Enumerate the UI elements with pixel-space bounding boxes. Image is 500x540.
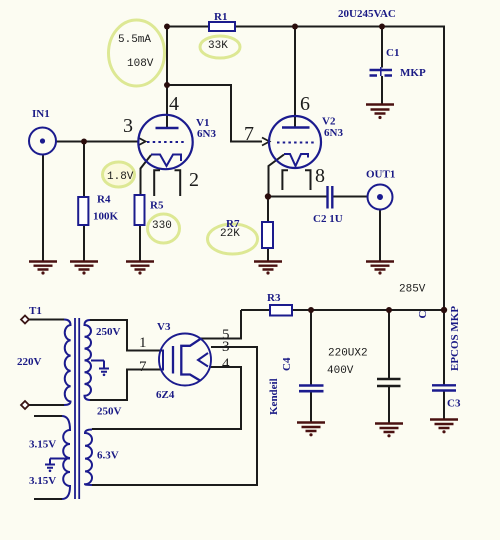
wire IN1 to V1 grid	[57, 141, 139, 143]
V1 plate	[156, 127, 179, 130]
svg-text:20U245VAC: 20U245VAC	[338, 8, 396, 20]
wire node to C2	[268, 196, 327, 198]
wire C2 to OUT1	[334, 196, 368, 198]
grid arrow V1	[138, 138, 270, 146]
wire V3 pin4 to 6.3V top	[92, 367, 241, 429]
ground R7	[254, 262, 282, 275]
svg-text:6Z4: 6Z4	[156, 389, 175, 401]
wire B+ rail top right	[235, 26, 444, 28]
annotation ellipse 330	[148, 214, 180, 243]
terminal T1 top	[21, 316, 29, 410]
svg-text:400V: 400V	[327, 365, 354, 377]
wire C1 bottom lead	[381, 76, 383, 104]
svg-text:4: 4	[169, 93, 179, 115]
wire HV bottom to V3 pin7	[90, 370, 164, 401]
HV center tap wire	[91, 360, 104, 362]
svg-text:33K: 33K	[208, 40, 228, 52]
wire B+ filtered rail	[292, 309, 444, 311]
ground C1	[366, 105, 394, 120]
svg-text:7: 7	[244, 123, 254, 145]
resistor R1	[209, 22, 235, 31]
svg-text:4: 4	[222, 356, 230, 372]
wire R5 to ground	[139, 225, 141, 261]
svg-text:C2 1U: C2 1U	[313, 213, 343, 225]
wire 220V top lead	[29, 319, 64, 321]
svg-text:220UX2: 220UX2	[328, 348, 368, 360]
wire R4 to ground	[83, 225, 85, 261]
V3 cathode C shape	[181, 339, 201, 381]
svg-text:V3: V3	[157, 321, 171, 333]
ground C3	[430, 420, 458, 434]
wire IN1 to ground	[42, 155, 44, 262]
tube V1 envelope	[138, 115, 192, 169]
capacitor C3	[432, 385, 456, 390]
svg-text:3.15V: 3.15V	[29, 439, 56, 451]
V3 plate tie bar	[162, 350, 164, 371]
capacitor C1	[370, 67, 393, 76]
wire 3.15V top stub	[34, 415, 62, 417]
svg-text:6N3: 6N3	[324, 127, 343, 139]
svg-text:OUT1: OUT1	[366, 169, 395, 181]
transformer core	[75, 318, 79, 499]
wire R7 to ground	[267, 248, 269, 261]
V3 cathode wedge	[198, 353, 208, 367]
wire C3 to ground	[443, 391, 445, 420]
svg-text:3: 3	[123, 115, 133, 137]
wire mid cap riser	[388, 310, 390, 379]
svg-text:22K: 22K	[220, 228, 240, 240]
HV center tap ground	[99, 361, 109, 372]
svg-text:T1: T1	[29, 305, 42, 317]
svg-text:5.5mA: 5.5mA	[118, 34, 151, 46]
svg-text:R4: R4	[97, 194, 111, 206]
wire V3 pin3 to 6.3V bottom	[92, 347, 257, 485]
capacitor 220UX2 middle	[377, 379, 401, 386]
resistor R5	[135, 195, 145, 225]
V1 grid (dashed)	[147, 141, 186, 143]
svg-text:R5: R5	[150, 200, 164, 212]
svg-text:100K: 100K	[93, 211, 119, 223]
annotation ellipse 5.5mA/108V	[109, 20, 165, 86]
wire C1 top lead	[381, 27, 383, 68]
V2 cathode	[284, 154, 308, 166]
V1 heater legs	[154, 170, 180, 196]
node V2 cathode	[265, 193, 271, 199]
ground R4	[70, 262, 98, 275]
svg-text:220V: 220V	[17, 356, 42, 368]
node V2 plate	[292, 24, 298, 30]
svg-text:6N3: 6N3	[197, 128, 216, 140]
svg-text:IN1: IN1	[32, 108, 50, 120]
svg-text:108V: 108V	[127, 58, 154, 70]
tube V2 envelope	[269, 116, 321, 168]
node R1 left / V1 plate	[164, 24, 170, 30]
wire C4 to ground	[310, 392, 312, 423]
wire V1 cathode lead	[141, 155, 152, 195]
ground mid cap	[375, 424, 403, 438]
resistor R3	[270, 305, 292, 316]
svg-text:1.8V: 1.8V	[107, 171, 134, 183]
resistor R4	[78, 197, 88, 225]
ground OUT1	[366, 262, 394, 275]
wire 3.15V bottom stub	[34, 498, 62, 500]
svg-text:1: 1	[139, 335, 147, 351]
svg-text:8: 8	[315, 165, 325, 187]
3.15V winding	[62, 416, 70, 499]
primary winding 220V	[64, 320, 71, 406]
annotation ellipse 22K	[208, 224, 258, 254]
ground C4	[297, 423, 325, 437]
wire HV top to V3 pin1	[90, 320, 164, 351]
svg-text:7: 7	[139, 359, 147, 375]
HV secondary winding 250V-0-250V	[85, 320, 92, 400]
svg-text:6.3V: 6.3V	[97, 450, 119, 462]
terminal T1 bottom	[21, 401, 29, 409]
capacitor C4	[299, 386, 324, 392]
wire junction to R4	[83, 142, 85, 198]
svg-text:3.15V: 3.15V	[29, 475, 56, 487]
3.15V center tap wire	[50, 458, 70, 460]
svg-text:MKP: MKP	[400, 67, 426, 79]
node C3	[441, 307, 447, 313]
wire OUT1 to ground	[379, 210, 381, 261]
wire V2 plate riser	[294, 27, 296, 128]
svg-text:3: 3	[222, 339, 230, 355]
svg-text:2: 2	[189, 169, 199, 191]
wire V1 plate to V2 grid	[167, 85, 262, 142]
wire mid cap to ground	[388, 387, 390, 424]
ground IN1	[29, 262, 57, 275]
annotation ellipse 33K	[200, 36, 240, 58]
wire B+ rail top left	[167, 26, 209, 28]
svg-text:R1: R1	[214, 11, 227, 23]
svg-text:250V: 250V	[96, 326, 121, 338]
svg-text:C1: C1	[386, 47, 399, 59]
svg-text:C3: C3	[447, 398, 461, 410]
resistor R7	[262, 222, 273, 248]
svg-text:C: C	[417, 311, 429, 319]
svg-text:EPCOS MKP: EPCOS MKP	[449, 306, 461, 371]
ground R5	[126, 262, 154, 275]
node mid cap	[386, 307, 392, 313]
grid arrow V2	[262, 138, 270, 146]
svg-text:6: 6	[300, 93, 310, 115]
node C1	[379, 24, 385, 30]
node V1 plate junction	[164, 82, 170, 88]
wire V1 plate riser	[166, 27, 168, 129]
node R4 grid	[81, 139, 87, 145]
6.3V winding	[85, 430, 92, 486]
wire right vertical B+	[443, 26, 445, 386]
jack OUT1	[368, 185, 393, 210]
wire cathode node to R7	[267, 197, 269, 223]
wire R3 left lead	[241, 309, 270, 311]
svg-text:R3: R3	[267, 292, 281, 304]
annotation ellipse 1.8V	[103, 162, 135, 187]
tube V3 envelope	[159, 334, 211, 386]
wire 220V bottom lead	[29, 404, 64, 406]
wire C4 riser	[310, 310, 312, 385]
svg-text:Kendeil: Kendeil	[268, 378, 280, 415]
wire V3 pin5 to R3	[201, 310, 241, 339]
capacitor C2	[328, 186, 333, 209]
3.15V center tap ground	[45, 459, 55, 468]
V2 plate	[282, 126, 310, 129]
svg-text:C4: C4	[281, 357, 293, 371]
node C4	[308, 307, 314, 313]
V1 cathode	[151, 155, 181, 167]
V3 plate bar	[172, 346, 174, 374]
svg-text:285V: 285V	[399, 284, 426, 296]
svg-text:250V: 250V	[97, 406, 122, 418]
V2 heater legs	[282, 170, 310, 190]
jack IN1	[29, 128, 56, 155]
wire V2 cathode lead	[269, 155, 285, 197]
V2 grid (dashed)	[277, 142, 316, 144]
svg-text:330: 330	[152, 220, 172, 232]
svg-text:V2: V2	[322, 116, 336, 128]
